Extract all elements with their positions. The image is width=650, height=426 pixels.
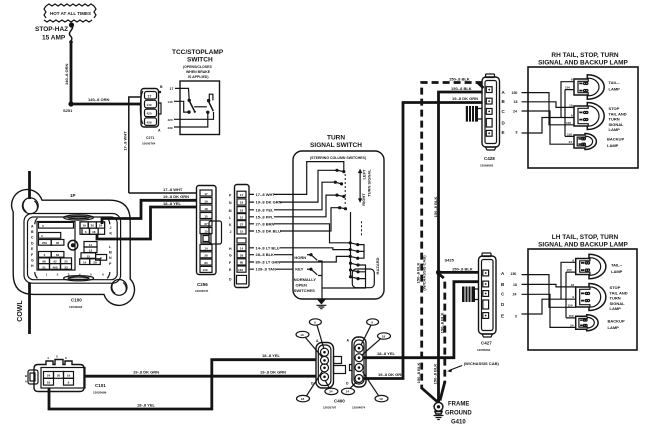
svg-text:150-.8 BLK: 150-.8 BLK	[433, 197, 438, 218]
svg-text:25: 25	[64, 260, 68, 264]
pin 439 lead	[168, 114, 208, 130]
svg-text:150-.8 BLK: 150-.8 BLK	[440, 313, 445, 334]
svg-text:18: 18	[514, 100, 518, 104]
svg-text:E: E	[501, 314, 504, 319]
svg-text:BACKUP: BACKUP	[608, 319, 625, 324]
svg-text:J: J	[230, 230, 232, 234]
C427 pin letters	[501, 271, 505, 319]
connector C428 body	[480, 74, 500, 168]
svg-text:19: 19	[379, 397, 383, 401]
svg-text:139-.8 TAN: 139-.8 TAN	[256, 267, 276, 272]
svg-text:18: 18	[571, 283, 575, 287]
svg-text:LH TAIL, STOP, TURN: LH TAIL, STOP, TURN	[552, 234, 619, 241]
wire P 17 WHT to switch	[249, 193, 293, 195]
svg-text:C271: C271	[146, 136, 154, 140]
RH lamp box	[528, 67, 638, 168]
svg-text:150: 150	[565, 86, 570, 90]
svg-text:10000764: 10000764	[142, 142, 156, 146]
wire 17 WHT C271 pin17 down to C256	[129, 97, 141, 193]
svg-text:IS APPLIED): IS APPLIED)	[188, 75, 208, 79]
wire F to hazard contacts	[293, 256, 350, 262]
svg-text:139: 139	[202, 268, 207, 272]
svg-text:18-.8 YEL: 18-.8 YEL	[256, 207, 274, 212]
svg-text:420: 420	[168, 118, 173, 122]
svg-text:TCC/STOPLAMP: TCC/STOPLAMP	[172, 49, 224, 56]
svg-text:140-.8 ORN: 140-.8 ORN	[88, 97, 109, 102]
svg-text:E: E	[502, 130, 505, 135]
svg-text:SWITCHES: SWITCHES	[294, 288, 315, 293]
svg-text:12020999: 12020999	[93, 391, 107, 395]
svg-text:150: 150	[566, 268, 571, 272]
svg-text:19: 19	[82, 224, 86, 228]
svg-text:490: 490	[52, 265, 57, 269]
C400 right callout 18	[362, 333, 391, 355]
RH bulb pin numbers	[565, 78, 573, 145]
svg-text:250: 250	[42, 241, 47, 245]
bulkhead connector C100 outline	[12, 189, 135, 305]
svg-text:17-.8 WHT: 17-.8 WHT	[256, 192, 276, 197]
svg-text:420: 420	[147, 112, 152, 116]
svg-text:C100: C100	[71, 298, 82, 303]
svg-text:20: 20	[91, 224, 95, 228]
LH bulb pin numbers	[566, 258, 574, 327]
svg-text:(W/CHASSIS CAB): (W/CHASSIS CAB)	[422, 255, 427, 291]
svg-text:24: 24	[569, 140, 573, 144]
svg-text:(STEERING COLUMN SWITCHES): (STEERING COLUMN SWITCHES)	[310, 156, 366, 160]
svg-text:15: 15	[240, 215, 244, 219]
RH stop/tail/turn bulb	[574, 103, 627, 133]
hazard linkage dashed	[361, 221, 363, 236]
wire M to turn contacts	[293, 182, 334, 210]
svg-text:OPEN: OPEN	[296, 283, 307, 288]
LH wire 18 from pin B	[522, 284, 576, 287]
svg-text:18-.8 YEL: 18-.8 YEL	[377, 351, 395, 356]
LH lamp box	[528, 249, 637, 350]
svg-text:92: 92	[53, 260, 57, 264]
svg-text:15: 15	[240, 230, 244, 234]
svg-text:LAMP: LAMP	[611, 269, 623, 274]
svg-text:TURN: TURN	[610, 296, 621, 301]
svg-text:19: 19	[240, 201, 244, 205]
svg-text:17-.8 WHT: 17-.8 WHT	[163, 187, 183, 192]
wire 17 WHT to C256	[129, 192, 197, 194]
svg-text:14: 14	[204, 246, 208, 250]
wire J to turn contacts	[293, 208, 339, 231]
svg-text:27: 27	[204, 222, 208, 226]
svg-text:M: M	[229, 209, 232, 213]
svg-text:TURN: TURN	[327, 135, 345, 142]
svg-text:C256: C256	[197, 282, 208, 287]
svg-text:SIGNAL SWITCH: SIGNAL SWITCH	[310, 142, 362, 149]
hazard contacts	[322, 241, 366, 288]
svg-text:24: 24	[329, 390, 333, 394]
svg-text:12069662: 12069662	[480, 164, 494, 168]
svg-text:1P: 1P	[70, 193, 76, 198]
wire 140 ORN fuse to S251	[70, 42, 73, 104]
svg-text:STOP: STOP	[610, 285, 621, 290]
svg-text:19-.8 DK GRN: 19-.8 DK GRN	[163, 194, 189, 199]
connector C427 body	[477, 253, 496, 352]
wire 150 BLK S425 to C427 pin A	[439, 271, 479, 274]
C400 right callout 9	[361, 319, 379, 345]
svg-text:17: 17	[240, 193, 244, 197]
svg-text:19: 19	[67, 374, 71, 378]
wire N 19 DK GRN to switch	[249, 201, 293, 203]
RH wire 150 from pin A	[522, 90, 575, 137]
svg-text:17: 17	[148, 94, 152, 98]
connector C271	[140, 85, 163, 146]
connector C256 body	[195, 186, 222, 294]
svg-text:J: J	[110, 226, 112, 230]
svg-text:19-.8 DK GRN: 19-.8 DK GRN	[260, 370, 286, 375]
wire F 80 LT GRN to switch	[249, 261, 293, 263]
W/CHASSIS CAB callout	[447, 361, 499, 372]
pin 17 lead	[170, 87, 190, 100]
svg-text:15: 15	[204, 229, 208, 233]
svg-text:19: 19	[204, 199, 208, 203]
svg-text:24: 24	[99, 224, 103, 228]
svg-text:GROUND: GROUND	[445, 411, 472, 417]
wire P feed to turn contacts	[293, 162, 344, 195]
svg-text:439: 439	[147, 120, 152, 124]
frame ground G410 ring terminal	[434, 399, 444, 420]
svg-text:C101: C101	[95, 383, 106, 388]
svg-text:150: 150	[567, 132, 572, 136]
svg-text:18: 18	[569, 103, 573, 107]
svg-text:24: 24	[513, 110, 517, 114]
svg-text:15: 15	[204, 214, 208, 218]
svg-text:C427: C427	[481, 341, 492, 346]
svg-text:12020797: 12020797	[323, 406, 337, 410]
turn signal contacts	[334, 169, 347, 211]
svg-text:TAIL AND: TAIL AND	[610, 290, 628, 295]
turn signal switch connector strip	[235, 185, 250, 288]
svg-text:24: 24	[346, 390, 350, 394]
svg-text:S251: S251	[63, 108, 73, 113]
RH wire 24 from pin C	[522, 111, 575, 144]
TCC/STOPLAMP switch title	[172, 49, 224, 79]
key contact	[295, 266, 317, 275]
svg-text:LAMP: LAMP	[608, 325, 620, 330]
connector C400 right half	[346, 337, 366, 387]
svg-text:62: 62	[56, 253, 60, 257]
TCC switch contacts left	[187, 99, 207, 114]
svg-text:18: 18	[513, 283, 517, 287]
wire J 15 DK BLU to switch	[249, 230, 293, 232]
svg-text:150: 150	[566, 121, 571, 125]
svg-text:18: 18	[382, 334, 386, 338]
power source HOT AT ALL TIMES	[44, 4, 96, 22]
svg-text:RH TAIL, STOP, TURN: RH TAIL, STOP, TURN	[551, 52, 618, 59]
svg-text:15 AMP: 15 AMP	[42, 35, 66, 42]
svg-text:9: 9	[515, 314, 517, 318]
svg-text:WHEN BRAKE: WHEN BRAKE	[186, 70, 211, 74]
svg-text:20: 20	[57, 374, 61, 378]
wire 19 DK GRN C101 to C400	[85, 375, 316, 378]
svg-text:24: 24	[570, 323, 574, 327]
C400 left callout 19	[296, 331, 322, 357]
svg-text:80-.8 LT GRN: 80-.8 LT GRN	[256, 260, 281, 265]
svg-text:17-.8 WHT: 17-.8 WHT	[123, 131, 128, 151]
hazard inner box	[352, 269, 374, 288]
C400 left callout 9	[309, 319, 324, 349]
C100 pin grid right-middle block	[80, 242, 107, 265]
svg-text:12033094: 12033094	[69, 305, 83, 309]
svg-text:C400: C400	[334, 399, 345, 404]
svg-text:HORN: HORN	[294, 255, 306, 260]
svg-text:19-.8 DK GRN: 19-.8 DK GRN	[378, 372, 404, 377]
LH backup lamp bulb	[576, 315, 625, 331]
svg-text:18-.8 YEL: 18-.8 YEL	[262, 353, 280, 358]
svg-text:11: 11	[89, 243, 93, 247]
svg-text:G410: G410	[451, 420, 466, 426]
strip pin letters	[229, 193, 232, 281]
svg-text:18: 18	[47, 380, 51, 384]
pin 140 lead	[168, 100, 189, 112]
svg-text:27: 27	[240, 222, 244, 226]
svg-text:27-.8 BRN: 27-.8 BRN	[256, 221, 275, 226]
svg-text:18-.8 YEL: 18-.8 YEL	[137, 402, 155, 407]
svg-text:150-.8 BLK: 150-.8 BLK	[452, 266, 473, 271]
turn to hazard link wire	[350, 212, 352, 277]
svg-text:140: 140	[147, 103, 152, 107]
C100 pin grid right-top block (pins 19 20 24 / 6 18)	[80, 222, 105, 234]
C400 right callout 19	[363, 372, 389, 402]
svg-text:150: 150	[511, 272, 517, 276]
svg-text:150: 150	[568, 314, 573, 318]
svg-text:G: G	[229, 254, 232, 258]
svg-text:150-.8 BLK: 150-.8 BLK	[451, 86, 472, 91]
wire 19 DK GRN C100 to C256	[102, 200, 197, 224]
splice S425	[436, 270, 441, 275]
svg-text:150: 150	[512, 91, 518, 95]
svg-text:19: 19	[300, 333, 304, 337]
wire L to turn contacts	[293, 195, 336, 217]
svg-text:HOT AT ALL TIMES: HOT AT ALL TIMES	[50, 11, 91, 16]
svg-text:150: 150	[567, 303, 572, 307]
svg-text:19-.8 DK GRN: 19-.8 DK GRN	[452, 96, 478, 101]
svg-text:24: 24	[513, 292, 517, 296]
wire 150 BLK dashed chassis-cab branch	[439, 274, 445, 384]
svg-text:14: 14	[83, 260, 87, 264]
COWL firewall line upper	[28, 171, 31, 199]
svg-text:TAIL--: TAIL--	[611, 263, 623, 268]
RH backup lamp bulb	[574, 134, 624, 150]
wire K 27 BRN to switch	[249, 223, 293, 225]
svg-text:TAIL--: TAIL--	[609, 80, 621, 85]
wire 140 ORN S251 to C271	[71, 103, 141, 106]
LH tail lamp bulb	[576, 254, 623, 278]
wire M 18 YEL to switch	[249, 209, 293, 211]
wire N to turn contacts	[293, 170, 336, 202]
turn signal switch box U2	[293, 151, 384, 299]
svg-text:9: 9	[516, 131, 518, 135]
svg-text:18: 18	[301, 397, 305, 401]
wire H 14 LT BLU to switch	[249, 247, 293, 249]
LH stop/tail/turn bulb	[576, 284, 628, 312]
svg-text:HAZARD: HAZARD	[375, 257, 380, 274]
wire 18 YEL C400 to C427	[364, 282, 480, 358]
svg-text:150-.8 BLK: 150-.8 BLK	[416, 363, 421, 384]
svg-text:LAMP: LAMP	[609, 87, 621, 92]
switch common to ground wire	[318, 261, 322, 299]
svg-text:28-.8 BLK: 28-.8 BLK	[256, 252, 275, 257]
svg-text:LAMP: LAMP	[610, 306, 622, 311]
svg-text:TURN SIGNAL: TURN SIGNAL	[367, 169, 372, 197]
svg-text:14-.8 LT BLU: 14-.8 LT BLU	[256, 245, 280, 250]
wire K to hazard contacts	[293, 224, 350, 243]
svg-text:24: 24	[47, 374, 51, 378]
C428 circuit numbers	[512, 91, 518, 135]
svg-text:SIGNAL AND BACKUP LAMP: SIGNAL AND BACKUP LAMP	[538, 242, 628, 249]
LH wire 150 from pin A	[522, 272, 576, 318]
ground below turn signal switch	[316, 299, 326, 308]
svg-text:M: M	[109, 251, 112, 255]
svg-text:18: 18	[204, 207, 208, 211]
fuse STOP-HAZ 15 AMP	[35, 22, 74, 43]
svg-text:18: 18	[92, 230, 96, 234]
connector C101 body	[25, 354, 107, 394]
splice S251	[68, 101, 73, 106]
svg-text:17: 17	[204, 192, 208, 196]
LH wire 24 from pin C	[522, 294, 576, 327]
svg-text:18: 18	[240, 208, 244, 212]
svg-text:35: 35	[56, 241, 60, 245]
svg-text:19-.8 DK GRN: 19-.8 DK GRN	[256, 200, 282, 205]
svg-text:15-.8 PPL: 15-.8 PPL	[256, 214, 275, 219]
svg-text:15-.8 DK BLU: 15-.8 DK BLU	[256, 229, 281, 234]
RH tail lamp bulb	[574, 75, 620, 99]
wire 19 DK GRN C400 up to C428	[364, 103, 483, 379]
C427 harness tape block	[462, 287, 479, 303]
svg-text:STOP-HAZ: STOP-HAZ	[35, 26, 68, 33]
C100 pin grid left block	[37, 222, 104, 277]
svg-text:SWITCH: SWITCH	[187, 57, 213, 64]
svg-text:COWL: COWL	[17, 300, 24, 322]
COWL firewall line lower	[28, 283, 31, 334]
svg-text:TURN: TURN	[609, 117, 620, 122]
svg-text:150-.8 BLK: 150-.8 BLK	[416, 263, 421, 284]
svg-text:140: 140	[168, 100, 173, 104]
connector C400 left half	[311, 339, 346, 388]
C428 pin letters	[502, 90, 506, 135]
svg-text:51: 51	[42, 265, 46, 269]
svg-text:FRAME: FRAME	[448, 402, 469, 408]
svg-text:17: 17	[170, 87, 174, 91]
svg-text:C428: C428	[484, 156, 495, 161]
C400 left callout 18	[297, 371, 323, 402]
horn contact	[294, 253, 317, 260]
svg-text:NORMALLY: NORMALLY	[294, 277, 317, 282]
svg-text:19-.8 DK GRN: 19-.8 DK GRN	[133, 370, 159, 375]
svg-text:439: 439	[168, 126, 173, 130]
svg-text:12065662: 12065662	[477, 348, 491, 352]
svg-text:BACKUP: BACKUP	[607, 137, 624, 142]
RH wire 9 from pin E	[522, 82, 575, 133]
C100 pin letters A-H	[31, 224, 34, 268]
wire 18 DK YEL C100 to C256	[97, 207, 197, 239]
svg-text:150-.8 BLK: 150-.8 BLK	[433, 364, 438, 385]
pin 420 lead	[168, 112, 214, 122]
svg-text:12004547: 12004547	[195, 289, 209, 293]
svg-text:18-.8 YEL: 18-.8 YEL	[163, 201, 181, 206]
svg-text:139: 139	[238, 268, 243, 272]
wire E 139 TAN to switch	[249, 268, 293, 270]
C400 left callout 24	[325, 380, 338, 395]
svg-text:TAIL AND: TAIL AND	[609, 111, 627, 116]
wire 150 BLK dashed trunk to C428 pin A	[422, 83, 483, 390]
C428 harness tape block	[466, 106, 482, 122]
C400 right callout 24	[342, 382, 358, 395]
svg-text:SIGNAL: SIGNAL	[610, 301, 626, 306]
svg-text:G: G	[31, 259, 34, 263]
TCC switch contacts right	[206, 94, 213, 114]
svg-text:15: 15	[87, 254, 91, 258]
svg-text:SIGNAL: SIGNAL	[609, 122, 625, 127]
svg-text:RIGHT: RIGHT	[361, 193, 366, 206]
C427 circuit numbers	[511, 272, 518, 319]
svg-text:14: 14	[240, 246, 244, 250]
C100 pin letters J-P	[109, 226, 113, 266]
wire L 15 PPL to switch	[249, 216, 293, 218]
LH wire 9 from pin E	[522, 262, 576, 314]
svg-text:S425: S425	[445, 258, 455, 263]
svg-text:STOP: STOP	[609, 106, 620, 111]
RH wire 18 from pin B	[522, 102, 575, 108]
wire G 28 BLK to switch	[249, 254, 293, 256]
svg-text:80: 80	[240, 261, 244, 265]
svg-text:33: 33	[64, 265, 68, 269]
svg-text:28: 28	[204, 254, 208, 258]
svg-text:KEY: KEY	[295, 266, 304, 271]
TCC/STOPLAMP switch box	[180, 81, 220, 135]
wire 150 BLK solid trunk to C428 pin B	[439, 92, 483, 402]
svg-text:(W/CHASSIS CAB): (W/CHASSIS CAB)	[464, 361, 500, 366]
wire 18 YEL C101 to C400	[49, 360, 316, 409]
wire H to hazard contacts	[293, 248, 350, 250]
svg-text:LAMP: LAMP	[609, 127, 621, 132]
svg-text:140-.8 ORN: 140-.8 ORN	[64, 64, 69, 85]
svg-text:SIGNAL AND BACKUP LAMP: SIGNAL AND BACKUP LAMP	[538, 60, 628, 67]
svg-text:LAMP: LAMP	[607, 143, 619, 148]
svg-text:(OPENS/CLOSES: (OPENS/CLOSES	[183, 65, 212, 69]
svg-text:12004674: 12004674	[352, 406, 366, 410]
svg-text:98: 98	[42, 260, 46, 264]
turn signal LEFT/RIGHT arrow	[358, 169, 372, 206]
svg-text:29: 29	[93, 260, 97, 264]
svg-text:150-.8 BLK: 150-.8 BLK	[449, 76, 470, 81]
svg-text:12: 12	[89, 249, 93, 253]
svg-text:28: 28	[240, 253, 244, 257]
svg-text:80: 80	[204, 261, 208, 265]
